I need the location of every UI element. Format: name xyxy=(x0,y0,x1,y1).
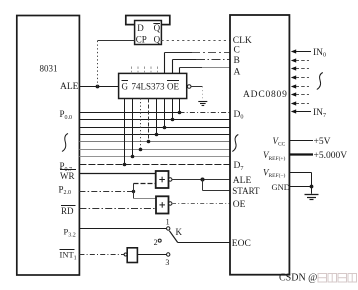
wire latch D2 input drop xyxy=(132,99,134,157)
analog input arrow 3 xyxy=(291,66,309,70)
D flip-flop U2 body xyxy=(135,21,162,45)
svg-text:ALE: ALE xyxy=(60,82,79,92)
wire P2.0 branch to gate G2 upper input xyxy=(134,198,157,200)
svg-text:B: B xyxy=(234,56,240,66)
wire ALE from 8031 to 74LS373 G xyxy=(79,86,118,88)
IC U1 8031 microcontroller body xyxy=(17,16,80,276)
junction node on ALE wire xyxy=(96,85,100,89)
wire latch D6 input drop xyxy=(164,99,166,128)
junction node AD1 tap xyxy=(171,118,175,122)
OR gate G2 output bubble xyxy=(169,202,172,205)
wire down to ground symbol xyxy=(311,187,313,194)
svg-text:+5V: +5V xyxy=(314,137,331,147)
wire P3.2 to switch contact 1 xyxy=(79,228,166,230)
wire GND to ground xyxy=(289,186,311,188)
pin label RD (8031, active low) xyxy=(61,206,76,217)
svg-text:RD: RD xyxy=(61,206,74,216)
OR gate G1 (WR + P2.0) body xyxy=(156,171,169,188)
pin range squiggle P0 (8031) xyxy=(62,134,68,152)
pin range squiggle D0-D7 (ADC) xyxy=(232,135,238,152)
analog input arrow 4 xyxy=(291,75,309,79)
pin label WR (8031, active low) xyxy=(60,170,76,181)
wire G1 output to ADC ALE xyxy=(172,179,230,181)
wire latch output to ADC address C xyxy=(165,53,231,74)
analog input arrow IN7 xyxy=(291,109,311,113)
junction node AD2 tap xyxy=(163,126,167,130)
wire VREF(-) to ground net xyxy=(289,173,311,187)
svg-text:3: 3 xyxy=(165,258,169,267)
OR gate G2 (RD + P2.0) body xyxy=(156,196,169,213)
junction node GND/VREF(-) xyxy=(310,185,314,189)
wire flip-flop Q to ADC CLK (dash-dot) xyxy=(161,40,230,42)
wire latch D5 input drop xyxy=(156,99,158,135)
wire WR to gate G1 input xyxy=(79,173,155,175)
wire latch output to ADC address B xyxy=(173,60,231,74)
svg-text:CLK: CLK xyxy=(233,36,252,46)
analog input arrow 7 xyxy=(291,101,309,105)
svg-text:Q: Q xyxy=(154,34,161,44)
analog input arrow 5 xyxy=(291,84,309,88)
junction node AD6 tap xyxy=(131,155,135,159)
svg-text:CSDN @: CSDN @ xyxy=(279,273,317,284)
junction node AD7 tap xyxy=(123,163,127,167)
svg-text:74LS373: 74LS373 xyxy=(132,82,166,92)
switch K contact 1 xyxy=(167,227,170,230)
wire into CP input of flip-flop xyxy=(98,40,135,42)
switch K contact 3 xyxy=(167,253,170,256)
wire INT1 to inverter input (dash-dot) xyxy=(79,254,124,256)
watermark CSDN xyxy=(279,273,357,284)
svg-text:D: D xyxy=(137,23,144,33)
svg-text:OE: OE xyxy=(233,200,246,210)
analog input arrow IN0 xyxy=(291,49,311,53)
unused latch output stubs (faint) xyxy=(132,67,158,74)
junction node AD3 tap xyxy=(155,133,159,137)
junction node AD5 tap xyxy=(139,148,143,152)
svg-text:WR: WR xyxy=(60,171,75,181)
wire P2.0 branch to gate G1 lower input xyxy=(134,183,156,185)
wire branch down to START xyxy=(203,180,231,191)
svg-text:GND: GND xyxy=(272,182,290,192)
junction node AD0 tap xyxy=(178,111,182,115)
svg-text:ADC0809: ADC0809 xyxy=(243,90,288,100)
latch U3 74LS373 body xyxy=(119,73,187,98)
wire P0.4 bus line (faint) xyxy=(79,141,230,143)
wire P0.7 bus line to ADC D7 (dashed) xyxy=(79,164,230,166)
wire RD to gate G2 input (dash-dot) xyxy=(79,208,156,210)
wire latch D7 input drop xyxy=(172,99,174,120)
junction node P2.0 branch xyxy=(132,190,135,193)
wire latch D1 input drop xyxy=(124,99,126,165)
wire G2 output to ADC OE (dash-dot) xyxy=(172,203,230,205)
wire VREF(+) to +5.000V (thick) xyxy=(289,153,313,155)
svg-text:G: G xyxy=(122,82,129,92)
wire P0.1 bus line xyxy=(79,119,230,121)
svg-text:C: C xyxy=(234,46,240,56)
svg-text:OE: OE xyxy=(167,82,179,92)
wire P0.2 bus line xyxy=(79,127,230,129)
wire P2.0 branch vertical xyxy=(133,184,135,199)
OR gate G1 output bubble xyxy=(169,178,172,181)
wire latch D3 input drop (dotted) xyxy=(140,99,142,150)
ground symbol (ADC GND) xyxy=(305,195,319,200)
junction node AD4 tap xyxy=(147,140,151,144)
ground symbol below latch OE xyxy=(198,102,207,106)
svg-text:K: K xyxy=(176,227,183,237)
wire inverter output to switch contact 3 xyxy=(137,254,166,256)
svg-text:A: A xyxy=(234,67,241,77)
IC U4 ADC0809 body xyxy=(230,15,289,275)
wire P0.5 bus line (faint) xyxy=(79,149,230,151)
svg-text:ALE: ALE xyxy=(233,176,252,186)
svg-text:1: 1 xyxy=(166,218,170,227)
junction node ALE/START xyxy=(201,178,205,182)
pin range squiggle IN0-IN7 xyxy=(317,73,323,90)
wire latch output to ADC address A xyxy=(180,68,231,74)
pin label INT1 (8031, active low) xyxy=(60,250,77,262)
wire latch D8 input drop xyxy=(179,99,181,113)
wire ALE branch up to flip-flop CP (dotted) xyxy=(97,41,99,87)
svg-text:Q: Q xyxy=(154,23,161,33)
wire P0.0 / AD0 bus line to ADC D0 xyxy=(79,112,230,114)
D flip-flop U2 feedback hat wire (Qbar to D loop) xyxy=(126,16,170,25)
wire latch D4 input drop (dashed) xyxy=(148,99,150,142)
wire VCC to +5V xyxy=(289,140,313,142)
svg-text:START: START xyxy=(232,186,260,196)
switch K blade xyxy=(169,231,177,243)
wire EOC from switch to ADC xyxy=(178,242,230,244)
analog input arrow 2 xyxy=(291,58,309,62)
inverter G3 input bubble xyxy=(124,253,127,256)
svg-text:+5.000V: +5.000V xyxy=(314,151,348,161)
svg-text:2: 2 xyxy=(154,238,158,247)
wire P0.3 bus line xyxy=(79,134,230,136)
analog input arrow 6 xyxy=(291,92,309,96)
switch K contact 2 xyxy=(158,239,161,242)
inverter G3 body xyxy=(127,248,137,263)
wire P2.0 from 8031 (dash-dot) xyxy=(79,191,133,193)
svg-text:EOC: EOC xyxy=(232,239,251,249)
wire OE pulldown to ground xyxy=(191,87,203,101)
wire P0.6 bus line (faint) xyxy=(79,156,230,158)
latch OE output bubble xyxy=(187,85,191,89)
svg-text:8031: 8031 xyxy=(40,64,58,74)
svg-text:CP: CP xyxy=(136,34,147,44)
